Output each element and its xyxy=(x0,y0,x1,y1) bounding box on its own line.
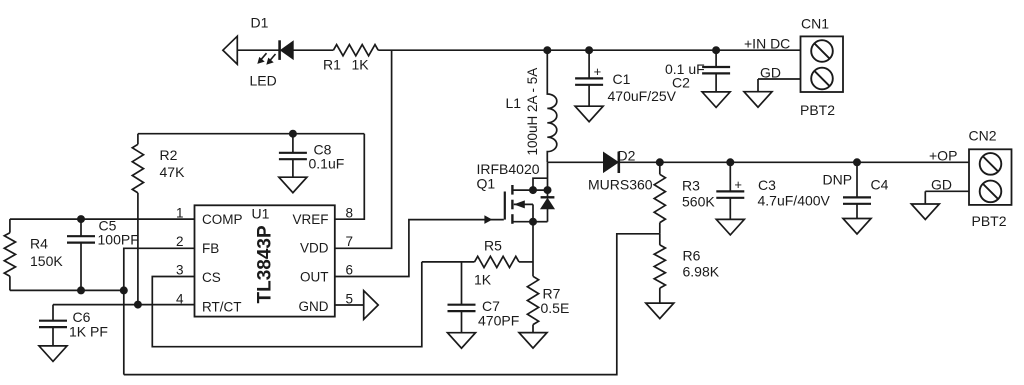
svg-text:560K: 560K xyxy=(682,194,715,210)
svg-text:R1: R1 xyxy=(323,57,341,73)
capacitor C7 xyxy=(461,262,463,305)
svg-text:GD: GD xyxy=(931,177,952,193)
ground xyxy=(843,219,871,235)
node FB junction xyxy=(120,286,128,294)
node R2/RTCT xyxy=(134,301,142,309)
svg-text:R5: R5 xyxy=(484,238,502,254)
Q1 source stub xyxy=(514,221,534,223)
svg-text:3: 3 xyxy=(176,263,184,278)
svg-text:CS: CS xyxy=(202,270,221,285)
svg-text:100PF: 100PF xyxy=(98,232,139,248)
svg-text:R6: R6 xyxy=(683,248,701,264)
node Q1 drain b xyxy=(544,186,552,194)
wire pin5 GND xyxy=(335,304,363,306)
ground xyxy=(448,333,476,349)
wire FB xyxy=(124,248,195,374)
capacitor C5 xyxy=(80,219,82,236)
ground xyxy=(744,92,772,108)
Q1 body arrowhead xyxy=(514,200,525,208)
resistor R7 xyxy=(527,276,538,324)
capacitor C3 xyxy=(729,162,731,191)
connector CN1 xyxy=(801,36,844,92)
svg-text:RT/CT: RT/CT xyxy=(202,299,242,314)
svg-text:2: 2 xyxy=(176,234,184,249)
svg-text:7: 7 xyxy=(346,234,354,249)
svg-text:C1: C1 xyxy=(613,71,631,87)
gate arrowhead xyxy=(484,215,492,224)
node C1/+IN xyxy=(585,46,593,54)
node C8/VREF xyxy=(289,130,297,138)
port arrow GND pin5 xyxy=(364,291,379,320)
svg-text:R3: R3 xyxy=(682,178,700,194)
capacitor C1 xyxy=(588,50,590,78)
svg-text:Q1: Q1 xyxy=(477,176,496,192)
ground xyxy=(39,346,67,362)
wire OUT to gate xyxy=(335,220,504,277)
svg-text:6.98K: 6.98K xyxy=(683,264,720,280)
svg-text:1K PF: 1K PF xyxy=(69,324,108,340)
node R3 top xyxy=(656,158,664,166)
transistor Q1 channel xyxy=(511,185,513,195)
node C4 top xyxy=(853,158,861,166)
svg-text:C2: C2 xyxy=(672,75,690,91)
port arrow (LED return) xyxy=(223,36,237,64)
node C5 top xyxy=(77,215,85,223)
svg-text:GND: GND xyxy=(299,299,329,314)
wire +IN rail xyxy=(378,49,800,51)
op-amp U1 TL3843P xyxy=(195,205,335,316)
svg-text:R4: R4 xyxy=(30,236,48,252)
ground xyxy=(702,92,730,108)
wire R5 right xyxy=(519,261,533,263)
svg-text:4.7uF/400V: 4.7uF/400V xyxy=(758,193,831,209)
svg-text:PBT2: PBT2 xyxy=(972,213,1007,229)
capacitor C6 xyxy=(52,305,54,321)
wire VREF to pin8 xyxy=(335,134,365,220)
wire VDD feed xyxy=(335,50,392,248)
svg-text:TL3843P: TL3843P xyxy=(255,225,276,303)
wire diode to source xyxy=(533,221,548,223)
svg-text:8: 8 xyxy=(346,206,354,221)
Q1 drain stub xyxy=(514,189,548,191)
svg-text:OUT: OUT xyxy=(300,270,329,285)
Q1 drain vertical xyxy=(547,162,549,196)
resistor R1 xyxy=(333,45,378,56)
ground xyxy=(646,303,674,319)
svg-text:CN1: CN1 xyxy=(801,16,829,32)
wire xyxy=(237,49,278,51)
wire GD CN1 xyxy=(758,78,801,80)
svg-text:470PF: 470PF xyxy=(478,313,519,329)
Q1 body diode xyxy=(541,196,555,198)
node C3 top xyxy=(726,158,734,166)
node C2/+IN xyxy=(712,46,720,54)
svg-text:R2: R2 xyxy=(160,147,178,163)
diode D2 xyxy=(604,152,619,172)
svg-text:COMP: COMP xyxy=(202,212,243,227)
svg-text:VREF: VREF xyxy=(292,212,328,227)
wire VREF rail xyxy=(138,133,364,135)
svg-text:D2: D2 xyxy=(618,148,636,164)
node C5 bottom xyxy=(77,286,85,294)
resistor R4 xyxy=(9,219,11,233)
wire drain to D2 xyxy=(548,161,604,163)
Q1 drain notch xyxy=(533,178,548,190)
svg-text:CN2: CN2 xyxy=(969,128,997,144)
wire Q1 source down xyxy=(532,222,534,277)
wire xyxy=(293,49,333,51)
wire COMP rail xyxy=(10,218,195,220)
svg-text:U1: U1 xyxy=(252,206,270,222)
svg-text:GD: GD xyxy=(760,65,781,81)
svg-text:+OP: +OP xyxy=(929,148,957,164)
wire GD CN2 xyxy=(925,190,969,192)
connector CN2 xyxy=(969,149,1012,205)
svg-text:470uF/25V: 470uF/25V xyxy=(608,88,677,104)
svg-text:C4: C4 xyxy=(871,177,889,193)
svg-text:1K: 1K xyxy=(474,272,492,288)
svg-text:47K: 47K xyxy=(160,164,186,180)
svg-text:150K: 150K xyxy=(30,253,63,269)
ground xyxy=(575,106,603,122)
wire R4/C5 bottom xyxy=(10,289,124,291)
node L1/+IN xyxy=(543,46,551,54)
svg-text:LED: LED xyxy=(250,73,277,89)
ground xyxy=(519,333,547,349)
capacitor C8 xyxy=(292,134,294,153)
capacitor C2 xyxy=(715,50,717,67)
svg-text:0.5E: 0.5E xyxy=(541,300,570,316)
svg-text:FB: FB xyxy=(202,241,219,256)
svg-text:L1: L1 xyxy=(506,95,522,111)
svg-text:0.1uF: 0.1uF xyxy=(309,156,345,172)
resistor R5 xyxy=(475,256,520,267)
svg-text:+: + xyxy=(734,177,742,192)
svg-text:D1: D1 xyxy=(251,15,269,31)
wire output rail xyxy=(620,161,969,163)
resistor R3 xyxy=(659,162,661,174)
svg-text:+: + xyxy=(594,64,602,79)
svg-text:1K: 1K xyxy=(352,57,370,73)
wire FB bottom rail xyxy=(124,234,660,375)
svg-text:VDD: VDD xyxy=(300,241,329,256)
capacitor C4 xyxy=(856,162,858,197)
svg-text:DNP: DNP xyxy=(823,172,853,188)
wire RT/CT xyxy=(53,304,195,306)
wire R5 left xyxy=(422,261,475,263)
node Q1 drain a xyxy=(529,186,537,194)
transistor Q1 gate bar xyxy=(504,192,506,220)
svg-text:PBT2: PBT2 xyxy=(800,102,835,118)
svg-text:100uH 2A - 5A: 100uH 2A - 5A xyxy=(525,68,540,156)
ground xyxy=(279,177,307,193)
ground xyxy=(911,204,939,220)
svg-text:6: 6 xyxy=(346,263,354,278)
svg-text:+IN DC: +IN DC xyxy=(744,36,790,52)
wire CS loop xyxy=(152,262,422,347)
svg-text:MURS360: MURS360 xyxy=(588,177,653,193)
ground xyxy=(716,219,744,235)
node Q1 source xyxy=(529,218,537,226)
resistor R6 xyxy=(659,234,661,245)
LED D1 xyxy=(278,40,281,60)
Q1 body stub xyxy=(514,203,533,205)
resistor R2 xyxy=(137,134,139,145)
inductor L1 xyxy=(547,50,557,162)
svg-text:C3: C3 xyxy=(758,177,776,193)
